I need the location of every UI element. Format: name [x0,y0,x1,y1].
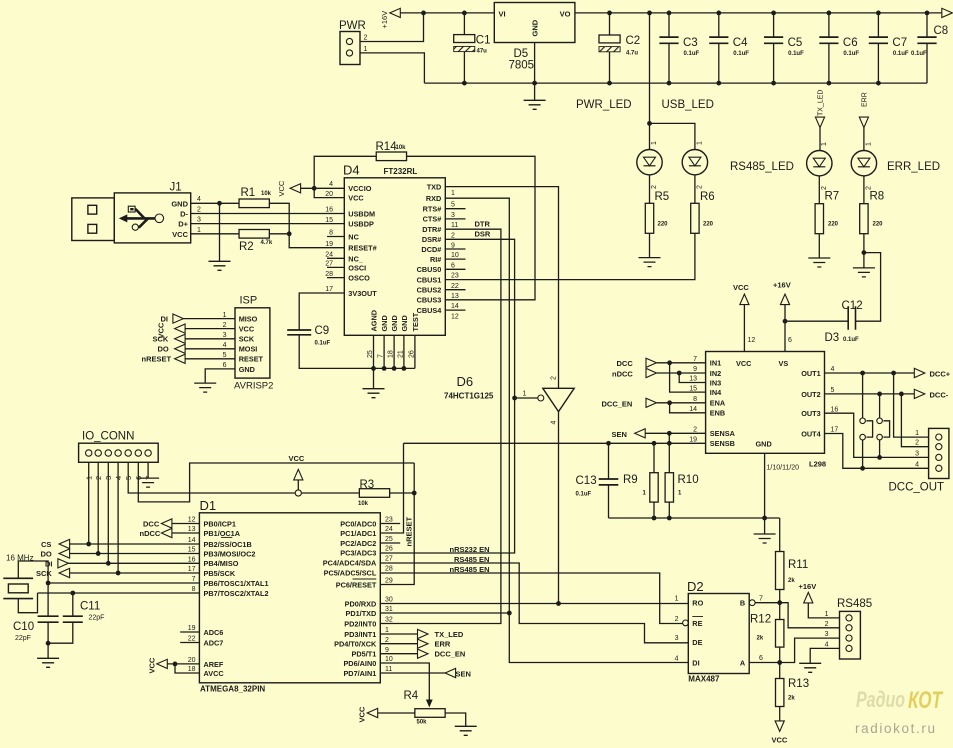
junction [925,11,930,16]
net DCC arrow [161,519,172,528]
resistor R9 [653,443,655,472]
svg-text:D-: D- [180,210,188,219]
svg-text:ADC6: ADC6 [204,628,224,637]
wire [380,653,417,655]
svg-text:5: 5 [831,387,835,394]
svg-text:PC5/ADC5/SCL: PC5/ADC5/SCL [324,568,377,577]
wire [649,233,651,257]
wire [390,492,415,494]
svg-text:3V3OUT: 3V3OUT [348,289,377,298]
ground [455,726,477,735]
junction [899,392,904,397]
wire [380,229,501,623]
wire [327,277,344,279]
net VCC arrow [157,659,168,668]
pin bubble RE [683,620,689,626]
svg-text:+16V: +16V [380,11,389,29]
junction [96,551,101,556]
wire [380,523,400,525]
svg-text:C1: C1 [476,35,491,47]
connector RS485 [840,611,861,659]
IC D1 ATMEGA8 [199,513,380,683]
svg-text:4: 4 [915,461,919,468]
svg-text:VCC: VCC [348,194,364,203]
svg-text:nRESET: nRESET [405,516,414,546]
svg-text:1: 1 [223,312,227,319]
wire [185,358,235,360]
svg-text:29: 29 [385,578,393,585]
svg-text:CTS#: CTS# [423,215,442,224]
svg-text:SCK: SCK [153,335,169,344]
svg-text:7: 7 [192,576,196,583]
svg-text:PB1/OC1A: PB1/OC1A [204,529,241,538]
wire [764,453,766,533]
svg-text:1/10/11/20: 1/10/11/20 [767,465,800,472]
junction [877,455,882,460]
wire [825,372,915,374]
wire [360,53,425,83]
ground [799,663,821,672]
svg-text:10k: 10k [261,191,272,197]
svg-text:14: 14 [188,537,196,544]
svg-text:2: 2 [825,621,829,628]
svg-text:AVCC: AVCC [204,669,225,678]
svg-text:TEST: TEST [411,312,420,331]
wire [297,480,299,490]
wire [818,234,820,258]
svg-text:7: 7 [693,356,697,363]
capacitor C2 [609,13,611,35]
svg-text:12: 12 [451,313,459,320]
svg-text:10: 10 [451,252,459,259]
junction [606,441,611,446]
svg-text:DCD#: DCD# [421,245,441,254]
wire [445,248,465,250]
junction [371,366,376,371]
net VCC arrow [367,708,378,717]
wire [380,463,414,585]
svg-text:MOSI: MOSI [239,345,258,354]
junction [532,81,537,86]
svg-text:GND: GND [756,440,772,449]
resistor R12 [779,603,781,620]
svg-text:CBUS3: CBUS3 [417,296,442,305]
junction [46,581,51,586]
svg-text:SEN: SEN [456,670,471,679]
resistor R13 [779,663,781,679]
svg-text:GND: GND [400,315,409,331]
svg-text:50k: 50k [417,720,428,726]
junction [173,662,178,667]
svg-text:D4: D4 [343,163,360,178]
net TX_LED arrow [418,629,429,638]
wire [70,572,200,574]
net DCC+ arrow [914,368,925,377]
wire [749,638,839,662]
wire [445,218,465,220]
junction [677,371,682,376]
net SCK arrow [59,568,70,577]
svg-text:USBDP: USBDP [348,220,374,229]
wire [649,175,651,204]
wire [147,462,149,478]
svg-text:PC4/ADC4/SDA: PC4/ADC4/SDA [323,558,377,567]
svg-text:L298: L298 [809,460,826,469]
wire [327,257,344,259]
svg-text:RO: RO [692,599,703,608]
svg-text:GND: GND [239,365,255,374]
wire [314,188,344,197]
junction [647,121,652,126]
svg-text:C6: C6 [843,37,858,49]
wire [400,12,494,14]
svg-text:17: 17 [188,566,196,573]
wire [205,369,235,383]
svg-text:PD1/TXD: PD1/TXD [345,609,376,618]
svg-text:PC2/ADC2: PC2/ADC2 [340,539,376,548]
svg-text:2: 2 [693,426,697,433]
svg-text:1: 1 [825,611,829,618]
svg-text:3: 3 [825,631,829,638]
net SCK arrow [175,334,186,343]
svg-text:11: 11 [451,222,458,229]
wire [645,432,705,434]
capacitor C1 [463,13,465,35]
svg-text:2: 2 [915,440,919,447]
wire [269,233,289,235]
svg-text:IN3: IN3 [710,378,721,387]
junction [512,396,517,401]
svg-text:R6: R6 [700,191,715,203]
svg-text:J1: J1 [170,182,182,194]
svg-text:220: 220 [658,221,669,227]
svg-text:0.1uF: 0.1uF [315,341,331,347]
svg-text:220: 220 [828,221,839,227]
svg-text:USBDM: USBDM [348,210,375,219]
svg-text:2: 2 [385,637,389,644]
svg-text:CBUS1: CBUS1 [417,275,442,284]
svg-text:C10: C10 [13,621,34,633]
svg-text:MISO: MISO [239,315,258,324]
potentiometer R4 [415,709,445,718]
svg-text:VCC: VCC [239,325,255,334]
svg-text:2: 2 [197,207,201,214]
svg-text:SENSB: SENSB [710,439,735,448]
wire [445,289,465,291]
svg-text:1: 1 [821,142,828,146]
wire [97,462,99,553]
svg-text:15: 15 [325,217,333,224]
svg-text:6: 6 [223,362,227,369]
svg-text:ENA: ENA [710,399,726,408]
ground [209,261,231,270]
svg-text:28: 28 [325,271,333,278]
pin bubble B [749,600,755,606]
svg-text:1: 1 [651,141,658,145]
svg-text:B: B [740,599,745,608]
resistor R5 [645,203,653,233]
svg-text:DTR#: DTR# [422,225,441,234]
svg-text:CBUS2: CBUS2 [417,286,442,295]
wire [88,462,90,544]
ground [534,83,536,100]
IC D4 FT232RL [344,178,445,335]
wire [314,156,376,188]
wire [825,434,929,469]
svg-text:14: 14 [451,303,459,310]
resistor R10 [668,443,670,472]
svg-text:22: 22 [188,636,196,643]
svg-text:ATMEGA8_32PIN: ATMEGA8_32PIN [200,685,265,694]
svg-text:PD4/T0/XCK: PD4/T0/XCK [334,640,377,649]
net arrow right [942,8,953,17]
wire [167,663,199,665]
svg-text:2: 2 [451,232,455,239]
svg-text:C2: C2 [626,35,641,47]
svg-text:C3: C3 [683,37,698,49]
svg-text:nRS232 EN: nRS232 EN [450,545,490,554]
svg-text:VCC: VCC [148,657,157,673]
svg-text:7805: 7805 [509,60,535,72]
svg-text:PC3/ADC3: PC3/ADC3 [340,548,376,557]
junction [891,371,896,376]
svg-text:2k: 2k [788,578,795,584]
resistor R1 [239,199,269,208]
svg-text:DO: DO [41,550,52,559]
wire [191,202,239,204]
net nRESET arrow [175,354,186,363]
svg-text:DCC_EN: DCC_EN [435,650,466,659]
svg-text:SEN: SEN [612,430,627,439]
wire [679,373,705,383]
net DI arrow [173,314,184,323]
svg-text:0.1uF: 0.1uF [843,337,859,343]
wire [445,233,695,280]
net DCC- arrow [914,389,925,398]
svg-text:C7: C7 [892,37,907,49]
svg-text:R7: R7 [825,191,840,203]
svg-text:3: 3 [915,450,919,457]
wire [445,268,465,270]
capacitor C6 [828,13,830,37]
resistor R3 [359,489,389,498]
svg-text:19: 19 [325,241,333,248]
svg-text:GND: GND [390,315,399,331]
svg-text:17: 17 [325,286,333,293]
resistor R7 [815,204,823,234]
svg-text:+16V: +16V [773,281,791,290]
svg-text:0.1uF: 0.1uF [684,51,700,57]
svg-text:D2: D2 [687,579,704,594]
wire [380,563,688,643]
junction [667,516,672,521]
svg-text:R4: R4 [404,690,419,702]
svg-text:ISP: ISP [240,295,258,307]
wire [863,234,865,268]
wire [18,561,48,583]
junction [116,571,121,576]
wire [825,393,915,395]
junction [876,81,881,86]
svg-text:15: 15 [689,385,697,392]
net CS arrow [59,539,70,548]
junction [507,611,512,616]
wire [445,208,465,210]
ground [639,258,661,267]
wire [784,305,786,352]
wire [534,43,536,84]
junction [462,11,467,16]
wire [808,603,839,618]
wire [380,612,509,614]
svg-text:ENB: ENB [710,409,725,418]
svg-text:74HCT1G125: 74HCT1G125 [444,392,494,401]
svg-text:13: 13 [451,293,459,300]
wire [180,642,199,644]
svg-text:DE: DE [692,638,702,647]
svg-text:R11: R11 [788,559,808,571]
junction [667,360,672,365]
wire [445,187,558,389]
svg-text:NC_: NC_ [348,254,364,263]
svg-text:0.1uF: 0.1uF [733,51,749,57]
wire [191,233,239,235]
wire [185,338,235,340]
svg-text:2k: 2k [788,696,795,702]
svg-text:4.7u: 4.7u [626,51,638,57]
junction [667,441,672,446]
wire [380,573,682,624]
svg-text:2: 2 [675,616,679,623]
svg-text:1: 1 [866,142,873,146]
svg-text:24: 24 [385,526,393,533]
wire [407,156,536,299]
wire [18,593,37,613]
svg-text:11: 11 [385,666,392,673]
junction [667,431,672,436]
junction [877,392,882,397]
ground [853,268,875,277]
svg-text:DCC-: DCC- [930,390,949,399]
junction [312,186,317,191]
capacitor C7 [877,13,879,37]
svg-text:DCC_EN: DCC_EN [602,399,633,408]
svg-text:R12: R12 [750,614,771,626]
svg-text:22pF: 22pF [89,615,105,622]
svg-text:R14: R14 [376,141,398,153]
svg-text:OUT4: OUT4 [801,429,821,438]
svg-text:DI: DI [692,658,699,667]
junction [716,81,721,86]
svg-text:2: 2 [697,185,704,189]
svg-text:PB3/MOSI/OC2: PB3/MOSI/OC2 [204,549,256,558]
junction [652,441,657,446]
wire [380,633,417,635]
svg-text:OUT2: OUT2 [801,390,820,399]
svg-text:10k: 10k [358,501,369,507]
svg-text:PD2/INT0: PD2/INT0 [344,619,376,628]
wire [863,128,865,151]
svg-text:IN4: IN4 [710,388,722,397]
wire [175,664,199,673]
svg-text:RI#: RI# [430,255,441,264]
connector DCC_OUT [929,428,949,478]
svg-text:2: 2 [821,186,828,190]
svg-text:AREF: AREF [204,660,224,669]
svg-text:RESET: RESET [239,355,264,364]
svg-text:2: 2 [223,322,227,329]
svg-text:R9: R9 [623,474,638,486]
junction [462,81,467,86]
svg-text:VCC: VCC [772,736,788,745]
svg-text:4: 4 [223,342,227,349]
capacitor C10 [47,583,49,616]
capacitor C4 [718,13,720,37]
junction [862,250,867,255]
net ERR arrow [418,639,429,648]
wire [48,582,199,584]
svg-text:C5: C5 [788,37,803,49]
svg-text:+16V: +16V [799,582,817,591]
capacitor C13 [608,443,610,479]
svg-text:DCC: DCC [617,359,634,368]
svg-text:4: 4 [831,366,835,373]
svg-text:IN2: IN2 [710,369,721,378]
svg-text:4: 4 [197,196,201,203]
svg-text:ERR_LED: ERR_LED [887,161,940,173]
wire [360,13,424,42]
wire [301,492,359,494]
svg-text:7: 7 [759,596,763,603]
svg-text:D6: D6 [457,374,474,389]
svg-text:VCC: VCC [736,359,752,368]
wire [668,433,670,443]
regulator D5 7805 [494,3,575,43]
wire [670,363,706,392]
svg-text:Радио: Радио [856,687,905,712]
svg-text:R1: R1 [241,187,256,199]
wire [810,648,839,663]
svg-text:ERR: ERR [862,92,869,107]
net DCC_EN arrow [418,649,429,658]
wire [380,643,417,645]
svg-text:TX_LED: TX_LED [818,90,825,116]
wire [191,223,345,225]
svg-text:28: 28 [385,566,393,573]
svg-text:12: 12 [188,517,196,524]
svg-text:DI: DI [161,315,169,324]
svg-text:32: 32 [385,617,393,624]
wire [755,603,839,628]
svg-text:R2: R2 [239,241,254,253]
wire [901,394,928,447]
svg-text:4.7k: 4.7k [261,240,273,246]
svg-text:PC1/ADC1: PC1/ADC1 [340,529,376,538]
svg-text:10k: 10k [396,145,407,151]
svg-text:IN1: IN1 [710,359,721,368]
junction [647,11,652,16]
svg-text:15: 15 [188,547,196,554]
net VCC arrow [175,324,186,333]
svg-text:PB2/SS/OC1B: PB2/SS/OC1B [204,540,252,549]
svg-text:1: 1 [364,46,368,53]
svg-text:OUT3: OUT3 [801,409,820,418]
junction [652,516,657,521]
svg-text:3: 3 [223,332,227,339]
svg-text:SCK: SCK [239,335,255,344]
svg-text:26: 26 [385,546,393,553]
svg-text:CBUS4: CBUS4 [417,306,443,315]
